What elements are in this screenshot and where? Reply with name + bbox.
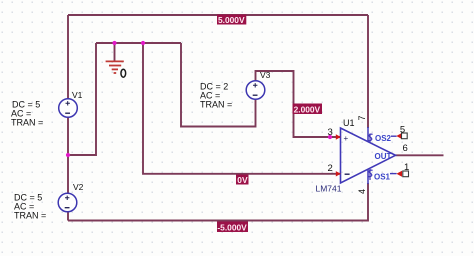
wire node A branch to ground rail <box>68 43 96 155</box>
svg-text:1: 1 <box>404 162 409 173</box>
wire pin 7 supply <box>367 15 369 128</box>
OS1 pin squiggle <box>368 169 373 180</box>
svg-text:5.000V: 5.000V <box>218 15 245 25</box>
svg-text:5: 5 <box>400 125 405 136</box>
OS2 red arrow <box>396 133 402 139</box>
junction dot ground rail at inverting branch <box>141 41 145 45</box>
voltage source V1 <box>59 99 78 118</box>
svg-text:2: 2 <box>328 163 333 174</box>
svg-text:7: 7 <box>357 115 367 120</box>
op-amp U1 triangle body <box>341 128 396 183</box>
voltage source V3 <box>246 81 265 100</box>
bias voltage label 0V <box>236 175 249 186</box>
wire top rail V+ <box>68 14 368 16</box>
junction dot ground rail at ground <box>112 41 116 45</box>
ground 0 symbol <box>106 61 124 73</box>
OS1 red arrow <box>396 171 402 177</box>
wire ground stem <box>114 43 116 61</box>
V2 value labels DC/AC/TRAN <box>14 193 46 221</box>
junction node A dot <box>66 153 70 157</box>
svg-text:2.000V: 2.000V <box>294 104 321 114</box>
wire V2 minus to bottom rail <box>67 212 69 221</box>
svg-text:U1: U1 <box>343 118 355 128</box>
pin 2 red arrow <box>336 171 341 176</box>
svg-text:4: 4 <box>357 189 367 194</box>
wire ground rail to V3 minus <box>181 43 256 127</box>
wire inverting input from ground rail <box>143 43 340 174</box>
OS1 pin line <box>390 173 397 175</box>
op-amp pin 4 stub <box>367 169 369 184</box>
svg-text:6: 6 <box>403 143 408 154</box>
svg-text:TRAN =: TRAN = <box>11 118 43 128</box>
voltage source V2 <box>58 193 77 212</box>
bias voltage label -5.000V <box>217 222 248 233</box>
svg-text:V2: V2 <box>73 182 84 192</box>
wire ground rail <box>96 42 181 44</box>
svg-text:0V: 0V <box>237 175 248 185</box>
OS2 pin squiggle <box>368 134 373 144</box>
wire OUT <box>396 154 444 156</box>
ground net name 0 <box>121 69 126 77</box>
bias voltage label 2.000V <box>293 104 323 115</box>
OS2 pin line <box>391 135 397 137</box>
svg-text:V1: V1 <box>72 90 83 100</box>
wire bottom rail V- <box>68 183 368 221</box>
svg-text:LM741: LM741 <box>316 184 342 194</box>
svg-text:OS1: OS1 <box>374 172 391 181</box>
op-amp inverting - mark <box>345 173 350 175</box>
svg-text:-5.000V: -5.000V <box>217 222 247 232</box>
wire V3 plus to pin 3 <box>256 71 341 137</box>
junction dot on pin 3 wire <box>328 135 332 139</box>
svg-text:V3: V3 <box>260 70 271 80</box>
V3 value labels DC/AC/TRAN <box>200 82 232 110</box>
svg-text:TRAN =: TRAN = <box>14 211 46 221</box>
wire V1 plus up <box>67 15 69 99</box>
OS2 pin 5 unconnected box <box>402 133 408 139</box>
pin 3 red arrow <box>336 134 341 139</box>
bias voltage label 5.000V <box>217 15 246 26</box>
OS1 pin 1 unconnected box <box>403 171 409 177</box>
svg-text:+: + <box>344 134 349 143</box>
svg-text:TRAN =: TRAN = <box>200 100 232 110</box>
op-amp pin 7 stub <box>367 127 369 142</box>
svg-text:OS2: OS2 <box>375 134 392 143</box>
V1 value labels DC/AC/TRAN <box>11 100 43 128</box>
svg-text:3: 3 <box>328 127 333 138</box>
wire V1 minus to V2 plus <box>67 117 69 194</box>
svg-text:OUT: OUT <box>375 152 392 161</box>
